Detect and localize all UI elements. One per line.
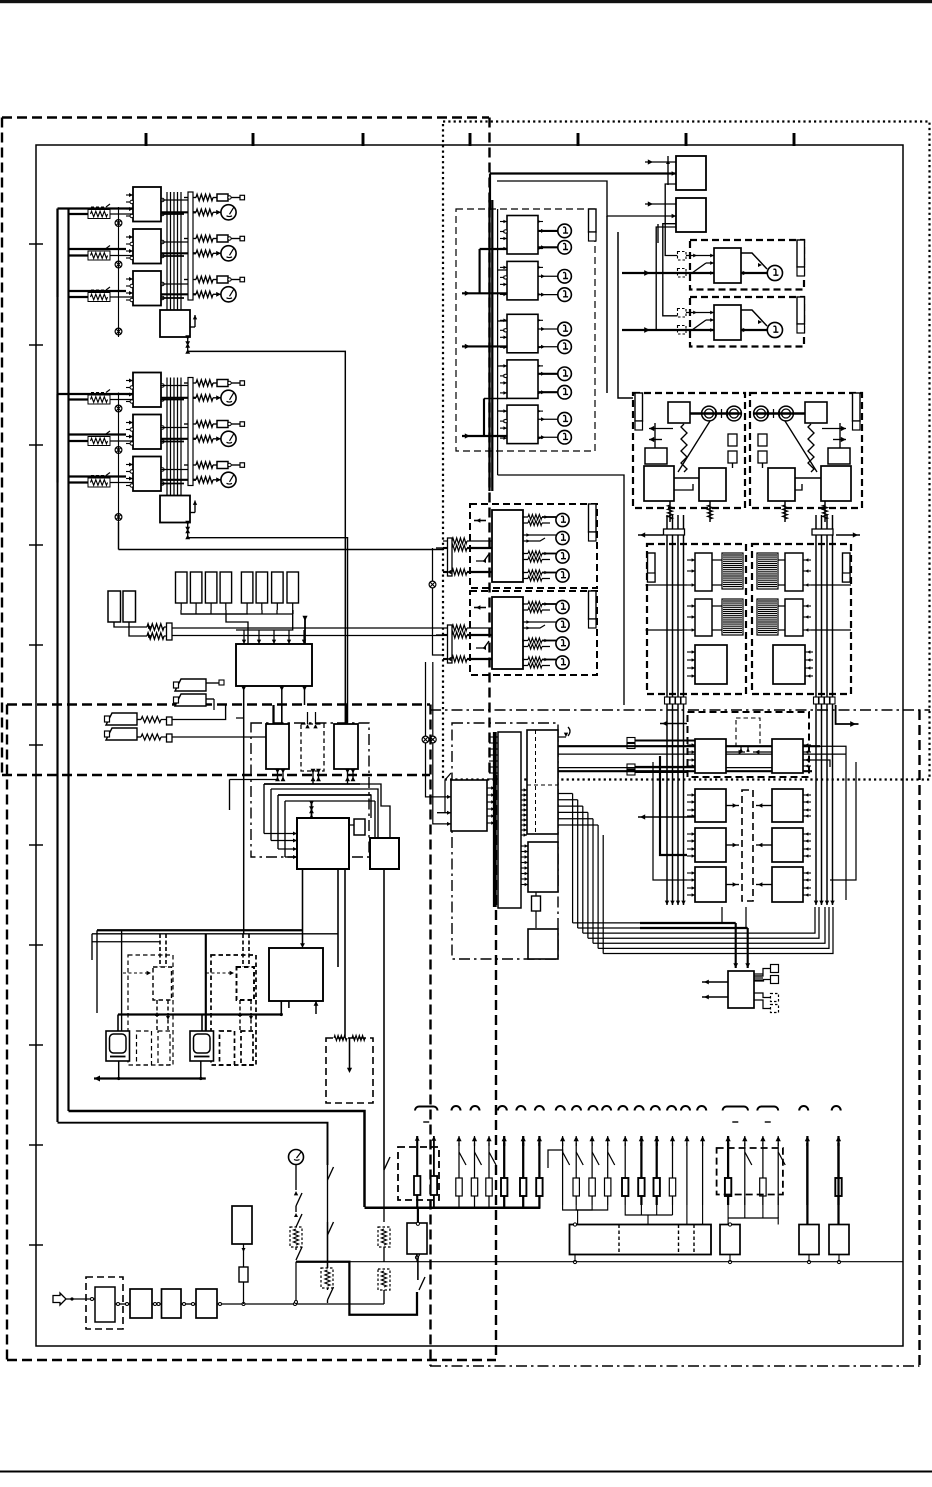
- iso amp 1: [785, 553, 803, 591]
- meter amp block B3: [507, 314, 538, 353]
- dashed region border mid vertical: [488, 118, 490, 776]
- PSU left stubs: [702, 981, 728, 983]
- monitor card input resistors 2: [448, 625, 453, 663]
- oscillator block: [668, 402, 690, 423]
- meter resistor R3b: [161, 293, 196, 295]
- transformer block bottom: [232, 1206, 252, 1244]
- isolation dashed box: [647, 544, 746, 694]
- frame grid ticks left: [29, 243, 43, 245]
- line transformer circles: [779, 406, 794, 421]
- meter amp block B4: [507, 360, 538, 399]
- speaker 2: [767, 322, 782, 337]
- monitor lamps 1: [523, 516, 528, 518]
- line amp block IC1: [133, 187, 161, 222]
- iso transformer 2: [757, 599, 778, 635]
- monitor select block TR1: [676, 156, 706, 190]
- iso amp 2: [785, 599, 803, 636]
- EQ dashed card 1: [153, 967, 172, 1000]
- bus bottom feed wire L: [69, 1111, 365, 1207]
- line out arrows: [822, 428, 846, 430]
- patch connector pair 1: [627, 738, 635, 743]
- meter lamp pair 3: [538, 328, 558, 330]
- line amp row 2 left block: [695, 789, 726, 822]
- osc card collect wires: [181, 610, 248, 614]
- bus junction otimes pair: [422, 736, 429, 743]
- left vertical bus L wire: [56, 209, 58, 1123]
- CRT feed wires: [121, 930, 123, 1031]
- mixer input amp A3: [334, 724, 358, 769]
- mains filter dashed box: [86, 1277, 123, 1329]
- record-out jack J1: [217, 194, 228, 201]
- psu sense wire: [349, 1261, 903, 1263]
- pan pots column: [115, 405, 122, 412]
- row 2 arrows to bus: [726, 805, 739, 807]
- dashed region border: bottom-left box: [7, 703, 430, 705]
- record-out jack J3: [217, 462, 228, 469]
- iso transformer 1: [722, 553, 743, 589]
- meter amp block B5: [507, 405, 538, 444]
- channel fader pots: [88, 395, 110, 404]
- EQ dashed card 1 outer: [128, 955, 173, 1065]
- line out bus bar: [853, 393, 861, 421]
- mixer routing mesh: [264, 783, 360, 785]
- channel input lines from bus: [58, 207, 134, 209]
- sweep bundle verticals: [572, 794, 574, 923]
- channel signal bus wires: [166, 378, 168, 496]
- monitor meter card dashed box 2: [470, 591, 597, 675]
- monitor card input resistors 1: [448, 538, 453, 576]
- bus interface tall block: [498, 732, 521, 908]
- row 4 arrows to bus: [726, 884, 739, 886]
- line amp block IC3: [133, 457, 161, 492]
- connector wide arcs: [415, 1107, 438, 1111]
- line amp row 4 left block: [695, 867, 726, 902]
- channel signal bus wires: [166, 192, 168, 310]
- monitor CRT left: [106, 1031, 130, 1061]
- iso amp 1: [695, 553, 712, 591]
- bus link narrow dashed rect: [742, 790, 753, 901]
- regulator block 2: [720, 1225, 740, 1255]
- iso left top arrow: [638, 534, 663, 536]
- VU meter M2: [221, 246, 236, 261]
- dash-dot enclosure master I/O: [452, 723, 558, 959]
- master amp input lines: [264, 833, 297, 835]
- VU meter M3: [221, 472, 236, 487]
- meter lamp pair 5: [538, 418, 558, 420]
- meter resistor R3b: [161, 479, 196, 481]
- driver blocks: [828, 448, 850, 464]
- wires TR to relay boxes: [665, 184, 677, 256]
- meter resistor R2b: [161, 438, 196, 440]
- matrix block: [236, 644, 312, 686]
- relay inputs 2: [678, 309, 687, 318]
- iso control block: [773, 645, 805, 684]
- pan pots column: [115, 220, 122, 227]
- main bus bar: [493, 732, 497, 907]
- psu link wire W1: [296, 1262, 417, 1315]
- relay box bus bar 1: [797, 240, 805, 267]
- iso transformer 1: [757, 553, 778, 589]
- oscillator block: [805, 402, 827, 423]
- power blocks row: [130, 1289, 152, 1318]
- meter resistor R1b: [161, 211, 196, 213]
- iso left bundle connector: [664, 529, 685, 535]
- control bus wires to matrix: [172, 627, 443, 629]
- router option dashed box: [736, 718, 760, 746]
- switch chain 2: [328, 1167, 334, 1180]
- bus pins left: [489, 736, 498, 738]
- summing amp block: [160, 496, 190, 523]
- record-out resistor R3a: [184, 279, 196, 281]
- wires to PSU block: [735, 923, 737, 968]
- record-out jack J2: [217, 421, 228, 428]
- PSU block: [728, 971, 754, 1008]
- regulator block 4: [829, 1225, 849, 1255]
- router inner arrows: [726, 751, 745, 753]
- line out arrows: [649, 428, 673, 430]
- monitor meter bus bar 1: [589, 504, 597, 532]
- VU meter M3: [221, 287, 236, 302]
- iso right top arrow: [836, 534, 860, 536]
- transformer bus line: [690, 412, 742, 414]
- mains wire: [66, 1298, 95, 1300]
- iso amp 2: [695, 599, 712, 636]
- mixer output junction arrows: [277, 769, 279, 781]
- row 3 arrows to bus: [726, 844, 739, 846]
- relay block bottom: [407, 1223, 427, 1254]
- dashed region border: recording section top: [2, 116, 489, 118]
- router block right: [772, 739, 803, 773]
- wire to TR2: [497, 181, 676, 216]
- channel input lines from bus: [58, 393, 134, 395]
- patch connector pair 2: [627, 764, 635, 769]
- wire bus to TR1: [490, 172, 676, 174]
- riser joiner wires: [548, 1150, 563, 1168]
- dotted region border: monitor section: [443, 122, 930, 780]
- tape head wires to matrix: [172, 705, 226, 720]
- master out amp block: [370, 838, 399, 869]
- relay block 2: [714, 305, 741, 340]
- summing amp output junction: [187, 337, 189, 352]
- switch chain 1: [295, 1165, 297, 1191]
- iso left wire bundle: [666, 515, 668, 905]
- feedback arrow wire: [94, 1077, 206, 1079]
- monitor card arrows 1: [474, 520, 486, 522]
- tape head feed vertical: [243, 686, 245, 934]
- isolation dashed box: [752, 544, 851, 694]
- relay block 1: [714, 248, 741, 283]
- block D processor: [528, 842, 558, 892]
- VU meter M1: [221, 390, 236, 405]
- line amp block IC3: [133, 271, 161, 306]
- psu bus thick: [365, 1207, 541, 1209]
- long wires right blocks to frame: [803, 746, 846, 754]
- meter card main verticals: [488, 200, 490, 491]
- dashed region border: bottom-right box: [429, 705, 431, 1367]
- monitor CRT right: [190, 1031, 214, 1061]
- meter resistor R1b: [161, 397, 196, 399]
- meter card A dashed enclosure: [456, 209, 595, 451]
- dash-dot enclosure mixer: [251, 723, 369, 857]
- dash-dot region boundary middle: [430, 709, 930, 711]
- mixer feed wires from top: [272, 705, 274, 724]
- block E output amp: [528, 929, 558, 959]
- matrix switch block C: [527, 730, 558, 834]
- riser collect wires: [563, 1205, 578, 1225]
- relay inputs 1: [678, 252, 687, 261]
- frame grid ticks top: [145, 133, 148, 146]
- CRT output to feedback wire: [118, 1061, 120, 1079]
- resistor RB: [239, 1267, 248, 1282]
- meter card inner wires: [498, 269, 507, 271]
- line output dashed box: [750, 393, 862, 508]
- block A pins: [487, 787, 495, 789]
- line transformer circles: [702, 406, 717, 421]
- mains input arrow: [53, 1293, 66, 1305]
- iso control block: [695, 645, 727, 684]
- record-out resistor R2a: [184, 423, 196, 425]
- patch wires into row blocks: [635, 740, 695, 742]
- speaker relay dashed box 1: [690, 240, 804, 290]
- monitor meter amp block 1: [492, 510, 523, 582]
- record-out jack J3: [217, 276, 228, 283]
- output router dashed box: [688, 712, 810, 777]
- summing amp block: [160, 310, 190, 337]
- attenuator pads: [728, 434, 737, 446]
- monitor meter card dashed box 1: [470, 504, 597, 588]
- meter card input arrows: [462, 292, 507, 294]
- vertical resistors: [681, 424, 687, 472]
- monitor out right arrow: [836, 705, 859, 724]
- driver blocks: [645, 448, 667, 464]
- master amp block: [297, 818, 349, 869]
- tape head icons pair A: [175, 679, 206, 691]
- page top rule: [0, 0, 932, 3]
- line amp block IC1: [133, 373, 161, 408]
- channel fader pots: [88, 210, 110, 219]
- mute logic block: [354, 819, 365, 835]
- meter lamp pair 4: [538, 373, 558, 375]
- dashed region border mid horizontal: [2, 774, 430, 776]
- mixer right routing wires: [369, 795, 371, 818]
- monitor meter amp block 2: [492, 597, 523, 669]
- riser resistors: [456, 1178, 462, 1196]
- EQ dashed card 2: [237, 967, 255, 1000]
- long right-side vertical wires: [845, 754, 847, 900]
- regulator long block: [570, 1225, 712, 1255]
- meter lamp pair 2: [538, 275, 558, 277]
- record-out resistor R2a: [184, 238, 196, 240]
- mixer input amp A2 (option, dashed): [301, 724, 324, 771]
- iso right bundle connector: [812, 529, 833, 535]
- riser switches: [563, 1152, 570, 1165]
- solid drawing frame: [36, 145, 903, 1346]
- connector arc row: [452, 1106, 461, 1111]
- record-out resistor R3a: [184, 464, 196, 466]
- router block left: [695, 739, 726, 773]
- meter bus bar: [188, 378, 193, 486]
- psu dashed selector box: [717, 1148, 783, 1195]
- monitor select block TR2: [676, 198, 706, 232]
- monitor card arrows 2: [474, 607, 486, 609]
- wires block C to patch right: [558, 745, 820, 747]
- mixer input amp A1: [266, 724, 289, 769]
- oscillator cards row: [176, 572, 188, 603]
- PSU right connectors: [754, 973, 763, 975]
- motor clock gauge: [289, 1150, 304, 1165]
- aux otimes: [429, 581, 436, 588]
- wires block C lower to sweep bundle: [558, 793, 573, 795]
- iso bus bar: [648, 553, 656, 582]
- record-out resistor R1a: [184, 197, 196, 199]
- regulator block 3: [799, 1225, 819, 1255]
- reference connector bar: [167, 623, 173, 640]
- master amp bottom wires: [302, 869, 304, 944]
- dashed region border left: [1, 118, 3, 776]
- line amp row 2 right block: [772, 789, 803, 822]
- summing amp output junction: [187, 523, 189, 538]
- line amp block IC2: [133, 229, 161, 264]
- meter card A bus bar: [589, 209, 597, 232]
- level dashed box Q: [326, 1038, 373, 1103]
- speaker relay dashed box 2: [690, 297, 804, 347]
- TR2 output wires down: [606, 216, 608, 393]
- tape head icons pair B: [106, 713, 137, 725]
- meter lamp pair 1: [538, 230, 558, 232]
- speaker 1: [767, 265, 782, 280]
- meter bus bar: [188, 192, 193, 300]
- record-out resistor R1a: [184, 382, 196, 384]
- monitor out left arrow: [638, 816, 695, 818]
- matrix output wires: [281, 686, 283, 723]
- monitor lamps 2: [523, 603, 528, 605]
- EQ dashed card 2 outer: [211, 955, 256, 1065]
- reference blocks left pair: [108, 591, 121, 622]
- iso bundle lower ticks: [665, 697, 670, 704]
- aux send wire y548: [119, 549, 444, 551]
- iso right wire bundle: [815, 515, 817, 905]
- attenuator pads: [758, 434, 767, 446]
- sum2 output wire to mixer: [188, 538, 348, 723]
- meter resistor R2b: [161, 252, 196, 254]
- mains filter block: [95, 1287, 115, 1322]
- line amp row 3 right block: [772, 828, 803, 862]
- line out bus bar: [635, 393, 643, 421]
- block C input pins: [521, 789, 527, 791]
- fuse dashed box bottom: [398, 1147, 439, 1200]
- regulator bottoms wire: [573, 1260, 576, 1263]
- meter amp block B1: [507, 216, 538, 255]
- line amp row 4 right block: [772, 867, 803, 902]
- line output dashed box: [633, 393, 745, 508]
- I/O amp block A: [451, 780, 487, 831]
- sweep bundle horizontals: [573, 907, 722, 923]
- switch chain 3: [384, 1157, 390, 1170]
- CRT bus wire: [118, 1013, 281, 1015]
- VU meter M1: [221, 205, 236, 220]
- block C top arrow: [568, 727, 570, 736]
- iso transformer 2: [722, 599, 743, 635]
- page bottom rule: [0, 1471, 932, 1473]
- line amp row 3 left block: [695, 828, 726, 862]
- delay block: [269, 948, 323, 1001]
- transformer tap diagonal: [678, 421, 710, 472]
- left input pins rows: [687, 744, 695, 746]
- resistor RD: [532, 896, 541, 911]
- meter amp block B2: [507, 261, 538, 300]
- reference resistors: [147, 624, 164, 630]
- monitor meter bus bar 2: [589, 591, 597, 619]
- sum1 output wire to mixer: [188, 351, 346, 723]
- relay box bus bar 2: [797, 297, 805, 324]
- record-out jack J1: [217, 380, 228, 387]
- line amp block IC2: [133, 415, 161, 450]
- record-out jack J2: [217, 235, 228, 242]
- VU meter M2: [221, 431, 236, 446]
- power rail risers: [458, 1143, 460, 1209]
- transformer bus line: [753, 412, 805, 414]
- matrix input arrows: [243, 630, 245, 644]
